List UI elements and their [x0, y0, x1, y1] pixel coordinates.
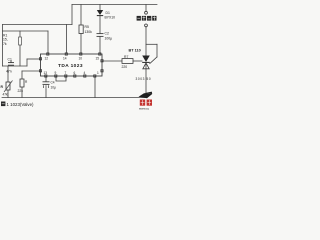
wire to pin lower-left y71: [22, 70, 41, 72]
wire C2 to pin15: [99, 37, 101, 54]
heater terminal upper: [145, 11, 148, 14]
svg-text:7: 7: [65, 71, 67, 75]
svg-text:BYX10: BYX10: [105, 16, 116, 20]
potentiometer Rp box: [6, 82, 10, 90]
svg-text:47k: 47k: [3, 93, 9, 97]
svg-text:R7: R7: [124, 55, 128, 59]
wire C4 drop x46: [45, 76, 47, 82]
wire left bus x2: [2, 25, 4, 67]
svg-text:10µ: 10µ: [51, 85, 57, 89]
wire pot bottom x8: [7, 90, 9, 98]
svg-text:www.cc: www.cc: [139, 106, 150, 110]
wire D1 top x100: [99, 5, 101, 11]
watermark logo black cap: [139, 93, 153, 98]
triac BT110 symbol: [142, 56, 150, 63]
wire left riser x72: [71, 5, 73, 25]
svg-text:10: 10: [79, 56, 83, 60]
capacitor C4: [43, 82, 50, 85]
svg-text:D1: D1: [106, 11, 110, 15]
svg-text:7k: 7k: [3, 42, 7, 46]
wire heater to triac: [145, 27, 147, 56]
wire gate diagonal: [150, 57, 157, 64]
wire R3 bottom x22: [21, 87, 23, 98]
wire R5 top x81: [80, 5, 82, 26]
svg-text:BT 110: BT 110: [129, 49, 141, 53]
svg-text:C4: C4: [51, 81, 55, 85]
svg-text:6: 6: [74, 71, 76, 75]
svg-text:100µ: 100µ: [105, 36, 113, 40]
svg-text:14: 14: [63, 56, 67, 60]
svg-text:47n: 47n: [6, 70, 12, 74]
svg-text:220: 220: [122, 65, 128, 69]
wire C4 to bus: [45, 89, 47, 98]
IC pin stubs right: [101, 60, 103, 72]
wire R1 branch x20: [19, 31, 21, 66]
svg-text:130k: 130k: [85, 30, 93, 34]
watermark red char 1: [140, 100, 145, 106]
wire pin drop x95: [94, 76, 96, 98]
wire U loop pins: [56, 76, 66, 81]
wire top rail: [72, 4, 157, 6]
wire bottom bus: [2, 97, 146, 99]
capacitor C2: [97, 34, 104, 37]
IC pin stubs top: [47, 53, 101, 55]
svg-text:22k: 22k: [18, 89, 24, 93]
IC pin stubs left: [39, 58, 41, 72]
heater terminal lower: [145, 24, 148, 27]
svg-text:R5: R5: [85, 25, 89, 29]
wire R7 to triac: [133, 60, 142, 62]
wire pin14 drop x66: [66, 25, 68, 54]
svg-text:3003 50: 3003 50: [136, 77, 152, 81]
wire triac cathode: [145, 63, 147, 98]
diode D1: [97, 10, 103, 15]
wire heater drop: [145, 5, 147, 12]
svg-text:15: 15: [96, 56, 100, 60]
resistor R1 box: [19, 37, 22, 45]
watermark red char 2: [147, 100, 152, 106]
wire gate branch y44: [146, 43, 157, 45]
IC pin stubs bottom: [45, 75, 96, 77]
svg-text:C1: C1: [8, 58, 12, 62]
wire to pin upper-left y59: [27, 58, 41, 60]
IC U1 TDA1023 body: [41, 54, 103, 76]
capacitor C1: [8, 61, 14, 66]
wire R5 to pin10: [80, 34, 82, 54]
svg-text:13: 13: [44, 71, 48, 75]
svg-text:4: 4: [84, 71, 86, 75]
potentiometer arrow: [4, 81, 13, 93]
svg-text:TDA 1023: TDA 1023: [58, 63, 83, 69]
wire gate from IC y61: [102, 60, 122, 62]
wire D1 to C2: [99, 16, 101, 34]
svg-text:9: 9: [55, 71, 57, 75]
resistor R7 box: [122, 59, 133, 64]
heater label 加热设备 (CJK blocks): [137, 16, 157, 21]
wire pot top x8: [7, 66, 9, 82]
wire upper-left rail y24: [3, 24, 73, 26]
wire pin12 drop x48: [47, 31, 49, 53]
wire y66: [3, 65, 28, 67]
resistor R5 box: [79, 25, 83, 34]
wire x27 link: [26, 59, 28, 66]
C4 hatches: [44, 85, 49, 88]
wire gate riser x157: [156, 44, 158, 57]
resistor R3 box: [20, 79, 24, 87]
caption 图1 (CJK block): [1, 102, 5, 107]
svg-text:12: 12: [45, 56, 49, 60]
svg-text:1 1023(Valve): 1 1023(Valve): [7, 102, 35, 107]
wire R3 top x22: [21, 71, 23, 79]
svg-text:C2: C2: [105, 32, 109, 36]
wire rail y31: [3, 30, 49, 32]
svg-text:1: 1: [97, 71, 99, 75]
